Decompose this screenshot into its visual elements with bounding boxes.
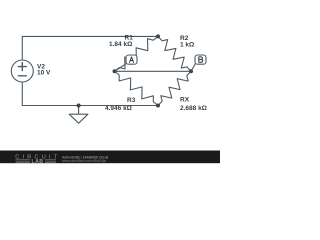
svg-text:www.circuitlab.com/c/8dk34jn: www.circuitlab.com/c/8dk34jn — [62, 159, 106, 163]
wire bottom horizontal — [22, 105, 158, 107]
junction top node — [156, 34, 160, 38]
junction node B — [189, 69, 193, 73]
label node A letter — [130, 57, 134, 62]
resistor R1 — [115, 36, 159, 71]
svg-text:2.688 kΩ: 2.688 kΩ — [180, 105, 207, 112]
wire node A to node B — [115, 70, 192, 72]
node flag B — [191, 55, 206, 71]
resistor R3 — [115, 71, 159, 105]
wire top horizontal — [22, 35, 158, 37]
junction bottom node — [156, 104, 160, 108]
watermark bar — [0, 151, 220, 164]
svg-text:1 kΩ: 1 kΩ — [180, 41, 194, 48]
wire V2 top vertical — [21, 36, 23, 60]
svg-text:R3: R3 — [127, 97, 136, 104]
resistor R2 — [158, 36, 191, 71]
svg-text:4.946 kΩ: 4.946 kΩ — [105, 105, 132, 112]
resistor RX — [158, 71, 191, 105]
junction node A — [113, 69, 117, 73]
CircuitLab logo — [15, 154, 60, 164]
node flag A — [115, 55, 138, 71]
wire V2 bottom vertical — [21, 82, 23, 106]
svg-text:10 V: 10 V — [37, 70, 51, 77]
junction ground tap — [77, 104, 81, 108]
label node B letter — [199, 57, 203, 62]
svg-text:LAB: LAB — [32, 159, 44, 165]
svg-text:RX: RX — [180, 97, 190, 104]
ground — [69, 106, 88, 124]
voltage source V2 — [11, 60, 33, 82]
svg-text:1.84 kΩ: 1.84 kΩ — [109, 41, 132, 48]
